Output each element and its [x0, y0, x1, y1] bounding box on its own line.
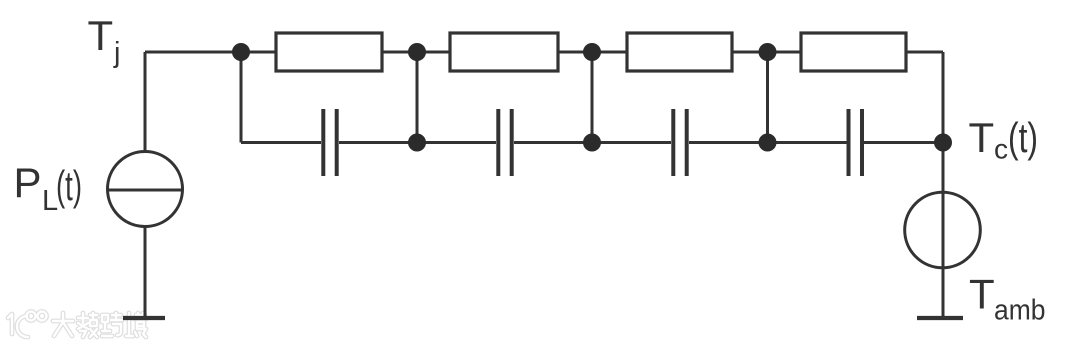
svg-text:P: P — [14, 159, 42, 206]
svg-text:T: T — [969, 114, 995, 161]
svg-text:T: T — [88, 12, 114, 59]
svg-text:(t): (t) — [1008, 114, 1038, 161]
svg-text:c: c — [994, 134, 1008, 165]
svg-text:amb: amb — [994, 295, 1046, 327]
svg-text:T: T — [969, 271, 995, 318]
svg-text:j: j — [113, 37, 120, 69]
svg-text:(t): (t) — [56, 162, 82, 209]
